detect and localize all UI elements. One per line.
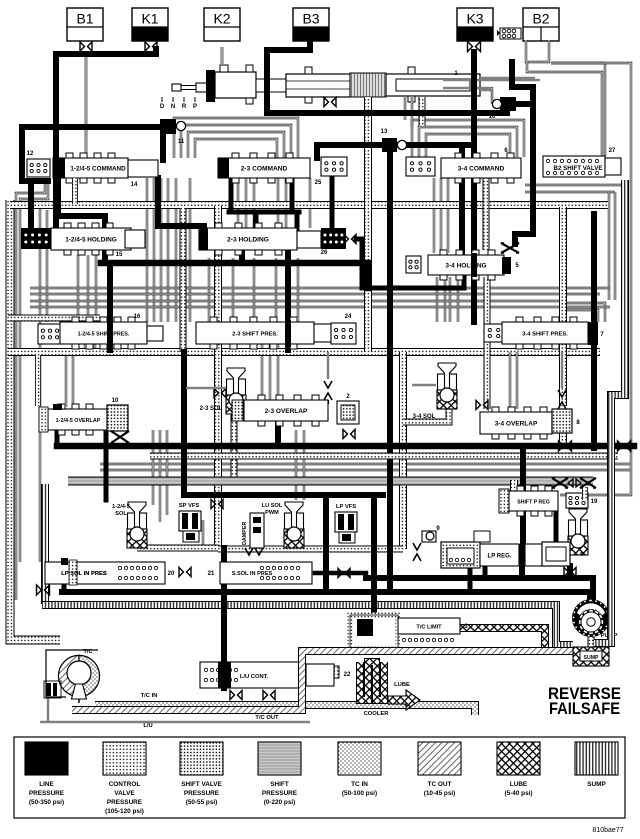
valve 2-3 holding <box>199 228 297 250</box>
orifice under K3 <box>468 42 473 52</box>
left sump drain band <box>41 484 49 604</box>
svg-text:(105-120 psi): (105-120 psi) <box>105 808 144 815</box>
riser through 2-3 shift pres <box>285 323 291 344</box>
svg-text:SHIFT: SHIFT <box>270 781 289 788</box>
dotted vertical x563 <box>559 207 567 406</box>
svg-text:1-2/4-5 HOLDING: 1-2/4-5 HOLDING <box>65 236 117 243</box>
lp reg drops <box>468 566 473 592</box>
orifice lu2 <box>263 691 268 700</box>
lp sol top tick <box>61 558 68 565</box>
lp reg top feed <box>520 446 526 544</box>
long horizontals y466 <box>100 463 630 465</box>
spring box 24 <box>331 323 356 344</box>
svg-text:LUBE: LUBE <box>510 781 528 788</box>
valve 3-4 overlap <box>480 412 552 434</box>
tc limit left block <box>350 615 398 648</box>
svg-text:3-4 SHIFT PRES.: 3-4 SHIFT PRES. <box>522 331 568 337</box>
riser through 1-2 shift pres <box>107 322 113 345</box>
dotted lp reg link <box>218 546 403 553</box>
solenoid 2-3 <box>227 379 246 395</box>
valve 3-4 shift pres <box>502 322 588 344</box>
black block 1-2 holding <box>21 228 51 249</box>
spring box 12 <box>27 159 50 177</box>
dotted vertical x487 low <box>484 277 491 409</box>
1-2 shiftpres right box <box>147 326 163 341</box>
node 13 left drop <box>314 145 320 158</box>
dotted vertical x368 <box>364 97 372 352</box>
1-2 overlap left plug <box>39 407 48 432</box>
dotted band y455 <box>150 453 618 460</box>
svg-text:PRESSURE: PRESSURE <box>29 790 65 797</box>
svg-text:TC IN: TC IN <box>351 781 368 788</box>
manual to 3-4 nest pipes <box>404 96 406 120</box>
svg-text:(50-55 psi): (50-55 psi) <box>186 799 218 806</box>
svg-text:PWM: PWM <box>265 510 279 516</box>
svg-text:COOLER: COOLER <box>364 711 390 717</box>
svg-text:DAMPER: DAMPER <box>242 522 248 545</box>
valve 2-3 command <box>218 158 310 178</box>
svg-text:T/C: T/C <box>83 649 93 655</box>
diamond band right <box>568 479 581 487</box>
svg-text:L/U: L/U <box>143 723 152 729</box>
line pressure to node 11 <box>22 124 168 130</box>
B2 shift right plug <box>605 158 621 175</box>
dotted vertical x563 low <box>559 433 567 443</box>
pipe to 2-3 sol <box>186 387 226 389</box>
center-left bundle <box>146 178 148 322</box>
2-3 command to holding <box>229 178 234 212</box>
rail y592 <box>62 592 590 600</box>
svg-text:1-2/4-5 OVERLAP: 1-2/4-5 OVERLAP <box>56 418 101 424</box>
svg-text:20: 20 <box>168 571 175 577</box>
dotted vertical x403 <box>399 352 407 549</box>
svg-text:T/C IN: T/C IN <box>141 693 158 699</box>
dotted vertical x422 <box>419 97 426 126</box>
orifice below 2-3 overlap <box>343 430 348 439</box>
clutch box K3 <box>457 8 493 41</box>
svg-text:2-3 OVERLAP: 2-3 OVERLAP <box>265 408 308 415</box>
1-2 holding right box <box>125 230 145 248</box>
line pressure manual to node 10 <box>267 104 507 113</box>
orifice right of sp vfs <box>211 500 216 509</box>
small valve 9 <box>422 531 436 542</box>
lp reg right drop <box>567 566 573 578</box>
svg-text:(0-220 psi): (0-220 psi) <box>264 799 296 806</box>
valve s.sol in pres <box>220 562 312 584</box>
line pressure branch left <box>22 127 48 181</box>
solenoid 3-4 <box>438 374 457 390</box>
svg-text:LP REG.: LP REG. <box>488 553 512 559</box>
overlap drop x57 <box>55 428 60 446</box>
clutch box K1 <box>132 8 168 41</box>
3-4 holding right plug <box>502 257 511 274</box>
clutch box B3 <box>293 8 329 41</box>
svg-text:B3: B3 <box>302 11 319 27</box>
dotted to shift p reg <box>510 480 518 492</box>
line pressure cmd bottom branch <box>58 178 105 263</box>
2-3 shift pres right box <box>314 324 331 342</box>
svg-text:1-2/4-5 SHIFT PRES.: 1-2/4-5 SHIFT PRES. <box>78 331 130 337</box>
2-3 overlap bottom stub <box>275 421 281 446</box>
orifice lp reg drop <box>564 568 569 577</box>
svg-text:K3: K3 <box>466 11 483 27</box>
pipe from B2 legs <box>526 40 549 62</box>
svg-text:(50-350 psi): (50-350 psi) <box>29 799 64 806</box>
spring box 34sp <box>484 324 504 342</box>
2-3 sol drain <box>231 413 238 477</box>
valve 3-4 holding <box>428 255 504 275</box>
cooler lube arrow <box>388 690 420 710</box>
dotted to 1-2 overlap <box>35 355 41 406</box>
shift p reg drop <box>554 511 559 542</box>
right edge loops <box>551 63 631 495</box>
svg-text:TC OUT: TC OUT <box>428 781 452 788</box>
svg-text:PRESSURE: PRESSURE <box>107 799 143 806</box>
pump body <box>572 599 610 637</box>
vsym 3-4 overlap <box>561 352 563 388</box>
pipe from K2 <box>221 47 224 64</box>
dotted stub to 19 bell <box>582 487 588 500</box>
shift gray band y480 <box>68 477 593 486</box>
manual valve left plug <box>206 70 215 102</box>
svg-text:16: 16 <box>134 314 141 320</box>
sump return band <box>594 180 625 643</box>
spring box 16l <box>38 324 62 344</box>
2-3 dotbox to rail <box>356 239 464 288</box>
pipe to 3-4 sol <box>412 384 436 386</box>
orifice below 1-2 overlap <box>111 431 129 443</box>
svg-text:12: 12 <box>27 151 34 157</box>
orifice rail right <box>618 441 623 451</box>
svg-text:27: 27 <box>609 148 616 154</box>
3-4 bundle verticals <box>433 178 435 253</box>
svg-text:3-4 SOL: 3-4 SOL <box>413 414 436 420</box>
shift p reg hatch plug <box>499 489 509 513</box>
valve 1-2/4-5 holding <box>51 228 131 250</box>
2-3 holding right box <box>297 231 321 248</box>
dotted band y318 <box>8 315 100 322</box>
sump collector band <box>42 605 573 645</box>
lp sol dotted plug <box>69 560 77 585</box>
svg-text:SHIFT P REG: SHIFT P REG <box>517 499 549 505</box>
2-3 spring to dotbox <box>330 176 335 228</box>
dotted vertical x486 <box>483 172 490 250</box>
vsym lp reg <box>413 543 421 550</box>
legend frame <box>14 737 625 818</box>
svg-text:FAILSAFE: FAILSAFE <box>549 699 620 718</box>
svg-text:SUMP: SUMP <box>584 655 600 661</box>
svg-text:2-3 SOL: 2-3 SOL <box>200 406 223 412</box>
lu cont right parts <box>306 664 334 686</box>
node 10 block <box>500 97 516 111</box>
valve shift p reg <box>509 491 558 511</box>
svg-text:(10-45 psi): (10-45 psi) <box>424 790 456 797</box>
1-2/4-5 command right box <box>128 160 158 177</box>
dotted vertical x183 <box>180 208 187 352</box>
tc limit feed <box>371 495 377 624</box>
solenoid lu <box>285 513 304 529</box>
orifice lu1 <box>230 691 235 700</box>
manual valve spool shaft <box>172 84 181 91</box>
left edge dotted main <box>10 200 60 640</box>
svg-text:10: 10 <box>489 114 496 120</box>
svg-text:B2: B2 <box>532 11 549 27</box>
torque converter torus <box>58 655 79 696</box>
legend swatch tc in <box>338 742 381 775</box>
orifice on x218 <box>214 389 219 398</box>
svg-text:K2: K2 <box>213 11 230 27</box>
manual valve end ticks <box>220 65 228 72</box>
valve lu cont <box>200 662 300 688</box>
tc in band <box>95 705 475 715</box>
svg-text:T/C LIMIT: T/C LIMIT <box>416 624 442 630</box>
under shift pres left <box>65 356 67 407</box>
vsym pair 2-3 overlap <box>327 352 329 379</box>
black block 2-3 holding <box>321 228 346 249</box>
right side loops b2 <box>525 184 621 186</box>
svg-text:T/C OUT: T/C OUT <box>255 715 279 721</box>
tc brake pads <box>44 681 61 698</box>
legend swatch line pressure <box>25 742 68 775</box>
svg-text:B1: B1 <box>76 11 93 27</box>
svg-text:LP SOL IN PRES: LP SOL IN PRES <box>61 571 107 577</box>
svg-text:22: 22 <box>344 672 351 678</box>
svg-text:1-2/4-5 COMMAND: 1-2/4-5 COMMAND <box>70 166 126 173</box>
loops right of 3-4 shift pres <box>560 303 605 322</box>
2-3 holding drop <box>239 246 245 263</box>
svg-text:L/U CONT.: L/U CONT. <box>240 674 269 680</box>
svg-text:3-4 COMMAND: 3-4 COMMAND <box>458 165 505 172</box>
line pressure node10 drop <box>515 104 533 244</box>
orifice under K1 <box>145 42 150 51</box>
svg-text:10: 10 <box>112 398 119 404</box>
torque converter housing <box>46 650 98 697</box>
svg-text:15: 15 <box>116 252 123 258</box>
rail elbow x177 <box>184 352 383 495</box>
svg-text:2-3 COMMAND: 2-3 COMMAND <box>241 165 288 172</box>
line pressure node10 riser <box>512 62 533 104</box>
svg-text:P: P <box>193 104 197 110</box>
pipes above 3-4 overlap <box>509 352 511 409</box>
clutch box B1 <box>67 8 103 41</box>
svg-text:26: 26 <box>321 250 328 256</box>
svg-text:LU SOL: LU SOL <box>262 503 283 509</box>
line pressure K1 feed <box>56 49 156 230</box>
orifice right of 2-3 holding <box>344 235 349 244</box>
spring box 3-4cmd <box>406 157 435 176</box>
svg-text:LINE: LINE <box>39 781 54 788</box>
1-2/4-5 command left plug <box>53 158 65 178</box>
cmd drain dotted <box>72 178 78 204</box>
svg-text:R: R <box>182 104 187 110</box>
legend swatch shift pressure <box>258 742 301 775</box>
svg-text:VALVE: VALVE <box>114 790 135 797</box>
svg-text:SUMP: SUMP <box>587 781 606 788</box>
lube band <box>458 628 545 648</box>
pump sump stub <box>588 637 595 647</box>
svg-text:(5-40 psi): (5-40 psi) <box>504 790 532 797</box>
svg-text:LUBE: LUBE <box>394 682 410 688</box>
right rail x594 <box>591 214 597 448</box>
svg-text:SP VFS: SP VFS <box>179 503 200 509</box>
riser through 3-4 holding <box>471 256 477 274</box>
valve 3-4 command <box>441 158 521 178</box>
manual valve tail lines <box>443 79 540 81</box>
3-4 command left feed <box>459 145 465 256</box>
rail riser x326 <box>323 495 329 592</box>
orifice rail mid <box>559 441 564 451</box>
orifice 3-4 holding <box>501 243 519 253</box>
rail riser x110 <box>107 263 113 350</box>
spring box 3-4 holding <box>406 256 421 273</box>
svg-text:13: 13 <box>381 129 388 135</box>
orifice 20-21 <box>179 568 184 577</box>
svg-text:2-3 SHIFT PRES.: 2-3 SHIFT PRES. <box>232 331 278 337</box>
valve 1-2/4-5 command <box>53 158 128 178</box>
line pressure K3 drop <box>471 52 477 322</box>
pipe from B1 <box>85 52 88 158</box>
lp sol drop <box>62 578 67 592</box>
pipe from B2 to shift valve <box>527 62 602 156</box>
svg-text:11: 11 <box>178 139 185 145</box>
valve tc limit <box>398 618 460 634</box>
clutch box K2 <box>204 8 240 41</box>
main rail y263 <box>101 263 368 288</box>
orifice under manual valve <box>324 98 329 107</box>
svg-text:B2 SHIFT VALVE: B2 SHIFT VALVE <box>554 165 603 172</box>
clutch box B2 <box>523 8 559 41</box>
damper <box>250 513 264 548</box>
svg-text:N: N <box>171 104 175 110</box>
B2 feed fitting <box>500 28 521 39</box>
orifice left drain <box>37 585 42 595</box>
legend swatch lube <box>497 742 540 775</box>
legend swatch tc out <box>418 742 461 775</box>
dotted sol row <box>137 545 218 552</box>
dotted vertical x218 <box>214 206 222 548</box>
spring box 23 <box>321 157 347 176</box>
tc out band low <box>72 651 586 710</box>
2-3 overlap hatch box <box>337 401 359 424</box>
svg-text:3-4 HOLDING: 3-4 HOLDING <box>445 262 486 269</box>
valve 1-2/4-5 overlap <box>48 409 108 430</box>
orifice band right 2 <box>580 478 596 488</box>
1-2 overlap hatch box <box>107 405 128 431</box>
small relief on lp reg <box>474 531 490 542</box>
2-3 bundle verticals <box>237 178 239 228</box>
valve lp sol in pres <box>45 562 165 584</box>
orifice 3-4 overlap left <box>476 401 481 410</box>
svg-text:3-4 OVERLAP: 3-4 OVERLAP <box>495 420 538 427</box>
svg-text:1-2/4-5: 1-2/4-5 <box>112 504 130 510</box>
vsym s.sol <box>245 548 253 555</box>
main rail y446 <box>57 443 634 450</box>
dotted band y356 <box>8 348 600 356</box>
node 11 block <box>160 119 176 134</box>
orifice s.sol right <box>338 569 343 578</box>
svg-text:PRESSURE: PRESSURE <box>262 790 298 797</box>
left bundle verticals <box>16 178 45 600</box>
svg-text:K1: K1 <box>141 11 158 27</box>
svg-text:24: 24 <box>345 314 352 320</box>
svg-text:21: 21 <box>208 571 215 577</box>
sump box <box>573 647 609 666</box>
under holding left <box>77 255 79 322</box>
svg-text:25: 25 <box>315 180 322 186</box>
3-4 overlap hatch box <box>552 409 572 433</box>
legend swatch control valve pressure <box>103 742 146 775</box>
svg-text:CONTROL: CONTROL <box>109 781 141 788</box>
nest above 2-3 command <box>174 118 298 158</box>
rail y578 <box>366 578 593 601</box>
valve 1-2/4-5 shift pres <box>60 322 147 344</box>
svg-text:SHIFT VALVE: SHIFT VALVE <box>181 781 222 788</box>
2-3 overlap left plug <box>232 400 243 421</box>
lp reg piston <box>441 542 480 568</box>
orifice band right 1 <box>552 478 568 488</box>
valve lp reg <box>480 544 519 566</box>
orifice under B1 <box>80 42 85 51</box>
svg-text:14: 14 <box>131 182 138 188</box>
node 13 feed <box>317 142 473 148</box>
valve 2-3 overlap <box>244 400 328 421</box>
node 11 drop to command valve <box>160 130 166 160</box>
3-4 shift pres right plug <box>588 322 598 345</box>
2-3 holding left plug <box>199 228 208 250</box>
manual valve right tails <box>480 77 535 79</box>
line pressure B3 feed <box>267 43 310 113</box>
svg-text:S.SOL IN PRES: S.SOL IN PRES <box>232 571 273 577</box>
legend swatch shift valve pressure <box>180 742 223 775</box>
svg-text:LP VFS: LP VFS <box>336 504 356 510</box>
1-2 overlap top tick <box>53 404 62 410</box>
fitting 22 <box>327 666 339 678</box>
lp reg sections <box>519 544 525 566</box>
lp reg bottom drop <box>519 566 525 578</box>
node 13 center drop <box>387 152 393 592</box>
nest above 3-4 command <box>412 120 524 157</box>
s.sol right link <box>315 571 366 576</box>
solenoid 1-2/4-5 <box>128 513 147 529</box>
manual valve body <box>215 72 256 98</box>
svg-text:19: 19 <box>591 499 598 505</box>
valve 2-3 shift pres <box>196 322 314 344</box>
line pressure branch 1-2 cmd right <box>158 178 204 230</box>
cooler coil <box>360 662 384 700</box>
misc pipes bottom <box>40 721 310 723</box>
legend swatch sump <box>575 742 618 775</box>
svg-text:D: D <box>160 104 165 110</box>
2-3 command left plug <box>218 158 229 178</box>
long horizontals y294 <box>30 287 610 289</box>
sol feed verticals <box>152 430 154 505</box>
dotted band y205 <box>10 201 608 209</box>
dotted band 3-4 sol <box>403 404 449 422</box>
valve B2 shift <box>543 156 605 177</box>
svg-text:810bae77: 810bae77 <box>592 827 623 834</box>
svg-text:PRESSURE: PRESSURE <box>184 790 220 797</box>
pipe B2 right edge <box>551 62 605 64</box>
node 13 block <box>382 138 397 152</box>
spring box 19 <box>566 493 588 508</box>
solenoid right <box>569 520 588 536</box>
svg-text:2-3 HOLDING: 2-3 HOLDING <box>227 236 269 243</box>
svg-text:SOL: SOL <box>115 511 127 517</box>
lu cont feed <box>221 548 227 688</box>
svg-text:(50-100 psi): (50-100 psi) <box>342 790 377 797</box>
